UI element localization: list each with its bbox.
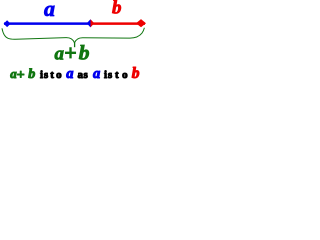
svg-text:a: a <box>66 66 73 82</box>
svg-text:b: b <box>79 41 90 65</box>
svg-text:+: + <box>64 40 77 65</box>
svg-text:is: is <box>104 69 113 81</box>
svg-text:to: to <box>50 69 64 81</box>
svg-text:b: b <box>132 65 140 82</box>
svg-text:a: a <box>55 44 65 65</box>
svg-text:is: is <box>40 69 49 81</box>
svg-text:to: to <box>115 69 131 81</box>
svg-text:as: as <box>78 69 89 81</box>
svg-text:b: b <box>112 0 122 19</box>
svg-text:b: b <box>28 67 35 82</box>
svg-text:a: a <box>93 66 100 82</box>
svg-text:a: a <box>44 0 55 21</box>
svg-text:+: + <box>17 68 25 83</box>
